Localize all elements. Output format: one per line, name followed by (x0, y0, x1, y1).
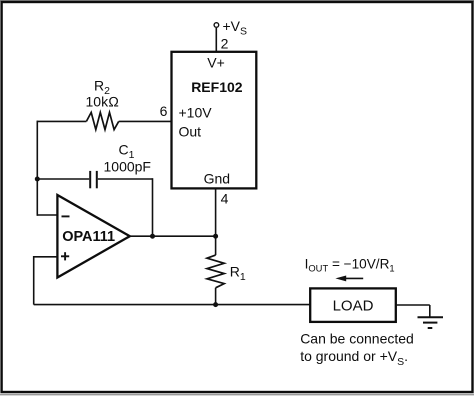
wire inverting input (37, 214, 57, 216)
svg-text:2: 2 (221, 35, 229, 51)
svg-text:+10V: +10V (179, 105, 213, 121)
node +VS terminal circle (214, 23, 219, 28)
svg-text:10kΩ: 10kΩ (86, 94, 120, 110)
resistor R1 (215, 236, 217, 255)
ground symbol (418, 316, 444, 318)
wire bottom rail to LOAD (34, 304, 311, 306)
junction R1 bottom dot (213, 302, 218, 307)
wire pin4 from Gnd down to output node (215, 188, 217, 236)
wire noninverting down rail (33, 256, 35, 305)
svg-text:6: 6 (160, 103, 168, 119)
wire C1 left lead (37, 178, 89, 180)
wire LOAD to ground (396, 304, 430, 306)
svg-text:LOAD: LOAD (333, 297, 374, 314)
svg-text:Out: Out (179, 123, 202, 139)
svg-text:4: 4 (221, 191, 229, 207)
wire noninverting input (34, 256, 58, 258)
LOAD box (310, 288, 396, 322)
junction output and R1 dot (213, 234, 218, 239)
IC REF102 box (172, 52, 257, 189)
svg-text:Can be connected: Can be connected (300, 331, 414, 347)
svg-text:REF102: REF102 (191, 79, 243, 95)
wire op-amp output (130, 235, 216, 237)
junction node feedback dot (35, 177, 40, 182)
minus sign of op-amp (62, 215, 70, 217)
current arrow IOUT (345, 277, 364, 279)
svg-text:Gnd: Gnd (204, 171, 230, 187)
wire left feedback rail (36, 121, 38, 216)
wire C1 right lead (98, 178, 153, 180)
junction output and C1 dot (150, 234, 155, 239)
wire pin6: R2 to REF102 +10V Out (37, 120, 86, 122)
svg-text:1000pF: 1000pF (104, 158, 151, 174)
plus sign of op-amp (61, 255, 69, 257)
wire C1 drop to output (152, 178, 154, 236)
svg-text:OPA111: OPA111 (62, 229, 115, 245)
op-amp OPA111 triangle (57, 195, 129, 278)
capacitor C1 plates (89, 171, 91, 188)
wire pin2 from +VS terminal to REF102 V+ (215, 28, 217, 52)
svg-text:V+: V+ (207, 55, 225, 71)
resistor R2 (86, 112, 118, 129)
